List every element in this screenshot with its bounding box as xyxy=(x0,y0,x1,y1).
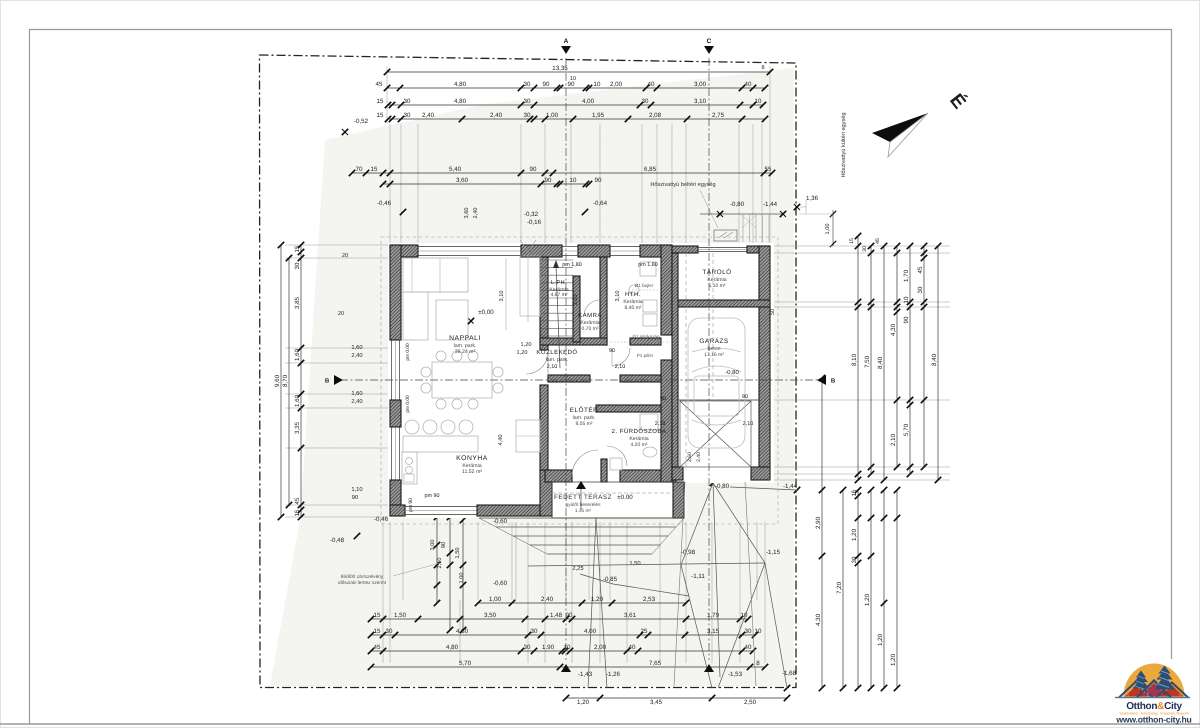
right extension lines xyxy=(772,245,950,247)
window: pantry top (pm 1,80) xyxy=(562,246,578,248)
svg-text:-0,48: -0,48 xyxy=(330,537,345,544)
wall: horizontal below stairs xyxy=(540,338,607,345)
coffee table xyxy=(436,300,468,340)
fence above garage xyxy=(742,215,744,242)
stair direction arrow xyxy=(556,266,560,368)
svg-text:45: 45 xyxy=(917,266,924,273)
svg-text:40: 40 xyxy=(648,81,655,88)
svg-text:55: 55 xyxy=(765,166,772,173)
svg-text:2. FÜRDŐSZOBA: 2. FÜRDŐSZOBA xyxy=(612,427,667,435)
svg-text:20: 20 xyxy=(342,253,348,259)
svg-text:1,20: 1,20 xyxy=(890,653,897,666)
svg-text:5,40: 5,40 xyxy=(449,166,462,173)
svg-text:30: 30 xyxy=(524,81,531,88)
svg-text:3,10: 3,10 xyxy=(694,98,707,105)
svg-text:7,50: 7,50 xyxy=(864,355,871,368)
svg-text:1,70: 1,70 xyxy=(903,269,910,282)
wall: left exterior mid xyxy=(390,400,401,427)
window: hth top xyxy=(610,246,640,248)
lot shading xyxy=(270,68,794,686)
svg-text:1,95: 1,95 xyxy=(592,112,605,119)
svg-text:10: 10 xyxy=(594,81,601,88)
svg-text:1,60: 1,60 xyxy=(294,348,301,361)
wall: bath right vertical stub xyxy=(601,459,607,482)
garage-top dim line with spot levels xyxy=(700,213,783,215)
svg-text:1,60: 1,60 xyxy=(351,344,362,351)
svg-text:10: 10 xyxy=(903,296,910,303)
right chains lower group xyxy=(821,378,823,688)
driveway splay lines xyxy=(674,482,685,686)
wall: garage top left piece xyxy=(672,246,698,253)
car in garage xyxy=(688,318,745,448)
bottom chain row 2 xyxy=(371,618,748,620)
svg-text:3,60: 3,60 xyxy=(464,208,470,219)
svg-text:1,35 m²: 1,35 m² xyxy=(575,508,592,514)
svg-text:8,05 m²: 8,05 m² xyxy=(576,421,593,427)
svg-text:40: 40 xyxy=(629,644,636,651)
svg-text:30: 30 xyxy=(851,556,858,563)
svg-text:10: 10 xyxy=(564,644,571,651)
svg-text:2,40: 2,40 xyxy=(351,398,362,405)
svg-text:40: 40 xyxy=(745,644,752,651)
svg-text:30: 30 xyxy=(294,262,301,269)
bottom border line xyxy=(0,723,1200,725)
svg-text:1,00: 1,00 xyxy=(489,596,502,603)
svg-text:1,50: 1,50 xyxy=(629,560,640,567)
window-door: kitchen to terrace (bottom) xyxy=(405,506,477,508)
svg-text:3,35: 3,35 xyxy=(294,421,301,434)
svg-text:5,10 m²: 5,10 m² xyxy=(709,283,726,289)
svg-text:-0,52: -0,52 xyxy=(354,118,369,125)
wall: tarolo/garage divider xyxy=(672,300,770,307)
svg-text:90: 90 xyxy=(660,396,666,402)
left dimension chain inner xyxy=(300,245,302,517)
svg-text:15: 15 xyxy=(294,509,301,516)
svg-text:Hőszivattyú kültéri egység: Hőszivattyú kültéri egység xyxy=(840,113,847,178)
svg-text:G1 gázkazán: G1 gázkazán xyxy=(632,334,660,339)
svg-text:1,20: 1,20 xyxy=(877,633,884,646)
svg-text:2,75: 2,75 xyxy=(712,112,725,119)
kitchen island + stools xyxy=(403,436,478,452)
terrace steps xyxy=(479,517,684,519)
svg-text:90: 90 xyxy=(545,177,552,184)
svg-text:3,61: 3,61 xyxy=(624,612,637,619)
svg-text:pm 1,80: pm 1,80 xyxy=(638,262,657,268)
wall: top exterior left corner xyxy=(390,245,418,257)
svg-text:86/800 zártszelvény: 86/800 zártszelvény xyxy=(341,574,384,580)
section marker A top xyxy=(561,46,571,54)
svg-text:90: 90 xyxy=(530,166,537,173)
svg-text:30: 30 xyxy=(386,628,393,635)
svg-text:8,40: 8,40 xyxy=(877,356,884,369)
svg-text:1,10: 1,10 xyxy=(351,486,362,493)
wall: entry bottom right piece / bath bottom xyxy=(620,470,676,482)
svg-text:1,20: 1,20 xyxy=(864,593,871,606)
svg-text:0,70 m²: 0,70 m² xyxy=(582,326,599,332)
svg-text:Ø1 bojler: Ø1 bojler xyxy=(635,283,654,288)
wall: horizontal above eloter right piece xyxy=(620,375,661,382)
svg-text:7,65: 7,65 xyxy=(649,660,662,667)
svg-text:www.otthon-city.hu: www.otthon-city.hu xyxy=(1115,715,1191,725)
svg-text:idősziaki lemez szerint: idősziaki lemez szerint xyxy=(338,580,387,586)
svg-text:1,00: 1,00 xyxy=(825,224,831,235)
svg-text:30: 30 xyxy=(862,246,868,252)
svg-text:2,10: 2,10 xyxy=(615,364,626,370)
svg-text:±0,00: ±0,00 xyxy=(617,494,633,501)
section marker C bottom xyxy=(704,664,714,672)
dim 1,36 xyxy=(794,204,800,210)
svg-text:2,10: 2,10 xyxy=(743,421,754,427)
svg-text:30: 30 xyxy=(404,98,411,105)
svg-text:3,50: 3,50 xyxy=(484,612,497,619)
door arc: bathroom xyxy=(607,446,627,466)
kitchen counter left xyxy=(402,452,417,484)
bottom-left mini vertical chains xyxy=(436,517,438,603)
svg-text:2,40: 2,40 xyxy=(351,352,362,359)
wall: top exterior mid xyxy=(521,245,562,257)
svg-text:3,45: 3,45 xyxy=(650,699,663,706)
svg-text:8: 8 xyxy=(761,65,764,71)
svg-text:1,50: 1,50 xyxy=(455,548,461,559)
svg-text:KÖZLEKEDŐ: KÖZLEKEDŐ xyxy=(536,348,577,356)
svg-text:25: 25 xyxy=(641,628,648,635)
svg-text:30: 30 xyxy=(917,286,924,293)
north arrow xyxy=(872,113,928,142)
svg-text:A: A xyxy=(564,38,569,45)
svg-text:90: 90 xyxy=(566,612,573,619)
dining table xyxy=(432,362,492,398)
dim 1,00 vertical xyxy=(832,210,834,246)
svg-text:4,00: 4,00 xyxy=(582,98,595,105)
svg-text:-0,46: -0,46 xyxy=(374,516,389,523)
svg-text:30: 30 xyxy=(531,628,538,635)
dimension chain above house row 6 xyxy=(383,183,589,185)
top extension lines xyxy=(389,124,391,243)
svg-text:-0,98: -0,98 xyxy=(681,549,696,556)
dimension chain top row 2 xyxy=(387,87,765,89)
svg-text:2,50: 2,50 xyxy=(744,699,757,706)
svg-text:8,40: 8,40 xyxy=(931,353,938,366)
svg-text:-1,11: -1,11 xyxy=(691,573,705,580)
svg-text:2,25: 2,25 xyxy=(572,565,583,572)
door arc: hth xyxy=(612,348,630,366)
svg-text:2,90: 2,90 xyxy=(815,516,822,529)
svg-text:L.PH.: L.PH. xyxy=(551,280,568,286)
svg-text:-0,16: -0,16 xyxy=(527,219,542,226)
garage door line xyxy=(678,399,759,401)
svg-text:1,48: 1,48 xyxy=(550,612,563,619)
svg-text:1,20: 1,20 xyxy=(517,350,528,356)
bottom chain row 3 xyxy=(371,634,755,636)
section line A xyxy=(565,58,567,660)
svg-text:4,20 m²: 4,20 m² xyxy=(631,442,648,448)
window centre marker xyxy=(520,240,528,252)
svg-text:-0,46: -0,46 xyxy=(377,200,392,207)
svg-text:1,00: 1,00 xyxy=(546,112,559,119)
svg-text:2,10: 2,10 xyxy=(547,364,558,370)
svg-text:pm 0,00: pm 0,00 xyxy=(405,395,411,413)
svg-text:45: 45 xyxy=(875,238,881,244)
svg-text:1,90: 1,90 xyxy=(542,644,555,651)
svg-text:8,40 m²: 8,40 m² xyxy=(625,305,642,311)
svg-text:-0,80: -0,80 xyxy=(725,369,739,376)
wall: top exterior mid2 xyxy=(578,245,610,257)
svg-text:P1 pillér: P1 pillér xyxy=(637,353,654,358)
svg-text:2,10: 2,10 xyxy=(890,433,897,446)
section line B xyxy=(340,379,820,381)
wall: terrace left vertical xyxy=(540,470,552,516)
svg-text:70: 70 xyxy=(356,166,363,173)
svg-text:15: 15 xyxy=(371,166,378,173)
wall: garage right bottom L xyxy=(751,467,770,480)
svg-text:lam. park.: lam. park. xyxy=(546,357,569,363)
svg-text:4,80: 4,80 xyxy=(446,644,459,651)
wall: house right (to garage) lower xyxy=(661,360,672,482)
bottom extension lines xyxy=(382,522,384,600)
svg-text:-0,60: -0,60 xyxy=(493,580,508,587)
svg-text:Otthon&City: Otthon&City xyxy=(1126,701,1182,712)
svg-text:20: 20 xyxy=(338,311,344,317)
svg-text:3,00: 3,00 xyxy=(694,81,707,88)
svg-text:30: 30 xyxy=(642,98,649,105)
section marker B left xyxy=(334,375,343,385)
svg-text:15: 15 xyxy=(374,628,381,635)
wall: horizontal below hth xyxy=(630,338,661,345)
svg-text:HTH.: HTH. xyxy=(625,291,641,298)
wall: garage left column xyxy=(672,253,678,467)
svg-text:4,80: 4,80 xyxy=(454,81,467,88)
svg-text:1,50: 1,50 xyxy=(394,612,407,619)
wall: left exterior lower + corner xyxy=(390,480,401,516)
svg-text:45: 45 xyxy=(376,81,383,88)
svg-text:-0,32: -0,32 xyxy=(524,211,539,218)
svg-text:2,10: 2,10 xyxy=(655,421,666,427)
terrace step arrow xyxy=(576,481,586,489)
svg-text:8: 8 xyxy=(756,660,760,667)
svg-text:90: 90 xyxy=(903,316,910,323)
svg-text:30: 30 xyxy=(745,628,752,635)
wall: center vertical (nappali/center) upper xyxy=(540,257,548,350)
svg-text:-1,26: -1,26 xyxy=(606,671,621,678)
window: living room left xyxy=(391,340,393,400)
svg-text:Hőszivattyú beltéri egység: Hőszivattyú beltéri egység xyxy=(650,181,715,188)
left dimension chain (8,70) xyxy=(288,258,290,505)
door arc: entry front door xyxy=(572,450,598,476)
svg-text:40: 40 xyxy=(745,81,752,88)
section marker A bottom xyxy=(561,664,571,672)
svg-text:4,30: 4,30 xyxy=(815,613,822,626)
svg-text:1,36: 1,36 xyxy=(806,195,819,202)
svg-text:8,10: 8,10 xyxy=(851,353,858,366)
svg-text:90: 90 xyxy=(742,394,748,400)
svg-text:B: B xyxy=(325,378,330,385)
left dimension chain outer (9,60) xyxy=(280,245,282,517)
svg-text:2,00: 2,00 xyxy=(610,81,623,88)
wall: center vertical lower xyxy=(540,385,548,470)
svg-text:15: 15 xyxy=(374,612,381,619)
svg-text:ELŐTÉR: ELŐTÉR xyxy=(570,406,599,414)
wall: bath upper y405 xyxy=(596,405,661,412)
svg-text:5,70: 5,70 xyxy=(903,423,910,436)
spot level -0,52 xyxy=(342,129,348,135)
svg-text:15: 15 xyxy=(377,98,384,105)
svg-text:NAPPALI: NAPPALI xyxy=(449,335,481,342)
wall: bottom kitchen corner block xyxy=(390,505,405,516)
svg-text:45: 45 xyxy=(374,644,381,651)
svg-text:3,60: 3,60 xyxy=(456,177,469,184)
svg-text:50: 50 xyxy=(770,309,776,315)
svg-text:1,60: 1,60 xyxy=(351,390,362,397)
wall: terrace right vertical xyxy=(673,482,684,518)
wall: garage right xyxy=(759,246,770,474)
garage apron X brace xyxy=(680,401,751,467)
svg-text:2,40: 2,40 xyxy=(696,452,702,462)
svg-text:2,40: 2,40 xyxy=(473,208,479,219)
svg-text:15: 15 xyxy=(851,489,858,496)
wall: house right (to garage) upper xyxy=(661,245,672,335)
svg-text:±0,00: ±0,00 xyxy=(478,309,494,316)
svg-text:pm 1,80: pm 1,80 xyxy=(562,262,581,268)
svg-text:10: 10 xyxy=(570,177,577,184)
svg-text:7,20: 7,20 xyxy=(836,581,843,594)
svg-text:10: 10 xyxy=(755,98,762,105)
svg-text:90: 90 xyxy=(595,177,602,184)
svg-text:6,85: 6,85 xyxy=(644,166,657,173)
svg-text:17,16 m²: 17,16 m² xyxy=(704,352,724,358)
svg-text:11,52 m²: 11,52 m² xyxy=(462,469,482,475)
svg-text:KAMRA: KAMRA xyxy=(578,312,602,319)
svg-text:30: 30 xyxy=(404,112,411,119)
heat pump outdoor unit xyxy=(714,230,737,241)
svg-text:GARÁZS: GARÁZS xyxy=(699,337,728,345)
door arc: nappali-kozlekedo xyxy=(526,352,548,374)
section marker C top xyxy=(704,46,714,54)
sofa xyxy=(403,258,468,292)
bottom chain row 5 xyxy=(371,666,765,668)
svg-text:10: 10 xyxy=(755,628,762,635)
wall: entry bottom left piece xyxy=(545,470,572,482)
section line C xyxy=(708,58,710,660)
wall: left exterior upper xyxy=(390,245,401,340)
svg-text:2,60: 2,60 xyxy=(687,452,693,462)
svg-text:pm 0,00: pm 0,00 xyxy=(405,343,411,361)
stairs xyxy=(541,259,573,261)
svg-text:15: 15 xyxy=(849,238,855,244)
bottom projection diagonals xyxy=(681,483,713,565)
svg-text:1,20: 1,20 xyxy=(577,699,590,706)
svg-text:45: 45 xyxy=(294,497,301,504)
svg-text:90: 90 xyxy=(352,494,358,501)
dimension chain top row 3 xyxy=(388,104,763,106)
svg-text:2,40: 2,40 xyxy=(422,112,435,119)
wall: garage left bottom stub xyxy=(672,467,683,480)
right chains upper group xyxy=(857,236,859,480)
svg-text:FEDETT TERASZ: FEDETT TERASZ xyxy=(554,494,612,501)
section marker B right xyxy=(817,375,826,385)
svg-text:pm 90: pm 90 xyxy=(425,493,440,499)
svg-text:39,24 m²: 39,24 m² xyxy=(455,349,476,355)
svg-text:8,70: 8,70 xyxy=(282,374,289,387)
svg-text:-1,53: -1,53 xyxy=(728,671,743,678)
hth fixtures xyxy=(640,262,656,276)
wall: bottom kitchen right part xyxy=(477,505,545,516)
svg-text:1,20: 1,20 xyxy=(521,342,532,348)
svg-text:3,10: 3,10 xyxy=(615,291,621,302)
left extension lines xyxy=(285,244,388,246)
wall: horizontal above eloter y375 xyxy=(548,375,590,382)
svg-text:KONYHA: KONYHA xyxy=(456,455,488,462)
window: living room top xyxy=(418,246,521,248)
svg-text:90: 90 xyxy=(543,81,550,88)
svg-text:1,00: 1,00 xyxy=(459,573,465,584)
svg-text:3,10: 3,10 xyxy=(573,295,579,306)
svg-text:-1,44: -1,44 xyxy=(763,201,778,208)
property boundary dash-dot xyxy=(260,55,797,688)
svg-text:90: 90 xyxy=(441,542,447,548)
svg-text:2,08: 2,08 xyxy=(649,112,662,119)
svg-text:30: 30 xyxy=(524,98,531,105)
svg-text:2,40: 2,40 xyxy=(490,112,503,119)
svg-text:3,10: 3,10 xyxy=(499,291,505,302)
svg-text:pm 90: pm 90 xyxy=(408,498,414,512)
svg-text:15: 15 xyxy=(377,112,384,119)
dining chairs xyxy=(436,351,446,361)
svg-text:C: C xyxy=(707,38,712,45)
dimension chain top row 1 (13,35) xyxy=(387,71,770,73)
svg-text:2,40: 2,40 xyxy=(541,596,554,603)
house footprint white xyxy=(388,243,774,483)
svg-text:4,87 m²: 4,87 m² xyxy=(551,292,568,298)
terrace slab xyxy=(552,482,684,518)
svg-text:TÁROLÓ: TÁROLÓ xyxy=(702,268,731,276)
svg-text:2,53: 2,53 xyxy=(643,596,656,603)
svg-text:90: 90 xyxy=(609,348,615,354)
svg-text:B: B xyxy=(831,378,836,385)
dimension chain above house row 5 xyxy=(352,172,772,174)
roof dashed lines in garage xyxy=(685,253,687,467)
svg-text:5,70: 5,70 xyxy=(459,660,472,667)
window: tarolo top xyxy=(698,247,747,249)
svg-text:-0,80: -0,80 xyxy=(730,201,745,208)
svg-text:-1,15: -1,15 xyxy=(766,549,781,556)
svg-text:3,85: 3,85 xyxy=(294,296,301,309)
wall: kamra/hth divider vertical xyxy=(600,257,607,345)
bottom chain row 1 xyxy=(478,602,686,604)
bottom chain row 4 xyxy=(371,650,753,652)
svg-text:90: 90 xyxy=(568,81,575,88)
svg-text:4,30: 4,30 xyxy=(890,323,897,336)
dimension chain top row 4 xyxy=(388,118,765,120)
svg-text:-0,64: -0,64 xyxy=(593,200,608,207)
bottom-most chain below boundary xyxy=(566,697,787,699)
roof overhang dashed outline xyxy=(381,237,778,524)
svg-text:gyülőt beserelés: gyülőt beserelés xyxy=(566,502,602,508)
svg-text:-1,44: -1,44 xyxy=(783,483,798,490)
svg-text:30: 30 xyxy=(524,112,531,119)
svg-text:1,60: 1,60 xyxy=(294,394,301,407)
interior dim 3,10 nappali xyxy=(505,258,507,330)
svg-text:4,40: 4,40 xyxy=(498,435,504,446)
svg-text:1,20: 1,20 xyxy=(851,528,858,541)
wall: top exterior right part xyxy=(640,245,672,257)
wall: garage top right piece xyxy=(747,246,770,253)
svg-text:-1,43: -1,43 xyxy=(578,671,593,678)
svg-text:9,60: 9,60 xyxy=(274,374,281,387)
tall cabinets right of kitchen xyxy=(516,420,540,452)
logo Otthon&City xyxy=(1115,664,1192,725)
svg-text:30: 30 xyxy=(524,644,531,651)
svg-text:4,80: 4,80 xyxy=(454,98,467,105)
